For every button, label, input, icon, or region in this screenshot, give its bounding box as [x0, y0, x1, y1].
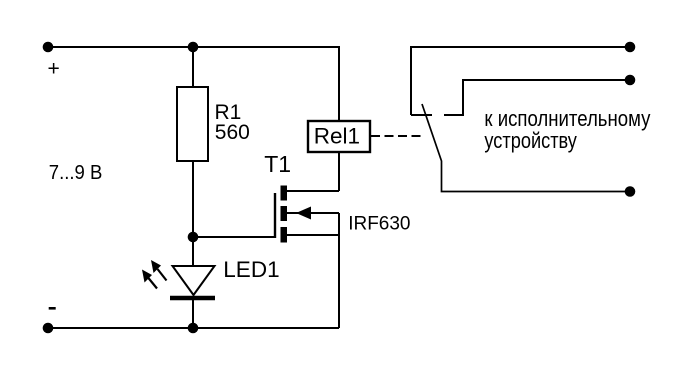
wire gate of T1 — [193, 236, 275, 238]
wire relay coil to drain — [338, 152, 340, 191]
dashed mechanical link Rel1 to contact arm — [371, 135, 422, 137]
svg-text:устройству: устройству — [484, 128, 577, 153]
wire top positive rail — [47, 46, 339, 48]
node output terminal 1 — [625, 42, 636, 53]
node junction of top rail with R1 branch — [188, 42, 199, 53]
node gate junction — [188, 232, 199, 243]
svg-text:IRF630: IRF630 — [348, 213, 410, 234]
transistor T1 gate plate — [274, 193, 276, 238]
svg-text:Rel1: Rel1 — [314, 123, 360, 148]
arrow body diode of T1 — [296, 207, 311, 220]
wire R1 bottom lead — [192, 161, 194, 237]
LED LED1 emission arrows — [142, 260, 167, 289]
node output terminal 3 — [625, 186, 636, 197]
relay switch arm and wire to terminal 3 — [422, 104, 630, 192]
wire relay contact common to terminal 1 — [411, 47, 630, 115]
node junction of bottom rail with LED branch — [188, 323, 199, 334]
transistor T1 body bar — [281, 206, 288, 221]
wire drain of T1 — [286, 190, 339, 192]
wire relay fixed contact right to terminal 2 — [444, 80, 630, 115]
LED LED1 triangle — [173, 266, 215, 295]
wire relay fixed contact left — [411, 114, 432, 116]
transistor T1 source bar — [281, 227, 288, 243]
wire body of T1 — [286, 212, 339, 214]
wire R1 top lead — [192, 47, 194, 87]
wire LED1 anode lead — [192, 237, 194, 266]
LED LED1 cathode bar — [170, 296, 215, 301]
transistor T1 drain bar — [281, 186, 288, 201]
svg-text:LED1: LED1 — [223, 257, 279, 282]
relay coil Rel1 — [308, 121, 370, 152]
node output terminal 2 — [625, 75, 636, 86]
label minus polarity — [49, 307, 56, 310]
node minus supply terminal — [43, 323, 54, 334]
wire source down to bottom rail — [338, 213, 340, 328]
wire LED1 cathode lead — [192, 300, 194, 328]
svg-text:T1: T1 — [264, 151, 291, 177]
resistor R1 — [177, 87, 208, 161]
node plus supply terminal — [43, 42, 54, 53]
svg-text:560: 560 — [215, 121, 250, 144]
wire top rail down to relay coil — [338, 46, 340, 121]
wire source of T1 — [286, 234, 339, 236]
svg-text:7...9 В: 7...9 В — [49, 162, 103, 184]
wire bottom negative rail — [48, 327, 339, 329]
svg-text:+: + — [48, 58, 60, 81]
